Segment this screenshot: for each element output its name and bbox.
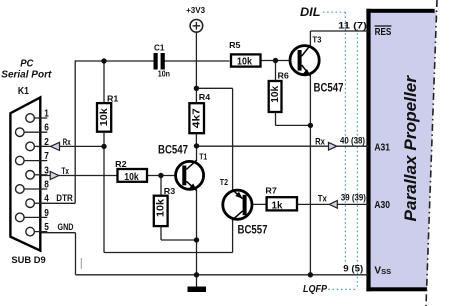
svg-text:BC547: BC547 [314,83,344,95]
svg-text:4: 4 [44,194,49,205]
svg-text:R2: R2 [115,159,127,169]
svg-text:4k7: 4k7 [191,108,203,128]
svg-text:GND: GND [58,222,74,233]
svg-text:10n: 10n [158,70,170,79]
svg-text:VSS: VSS [374,265,391,276]
svg-text:5: 5 [44,222,49,233]
svg-text:+3V3: +3V3 [186,6,205,15]
svg-text:R6: R6 [278,71,290,81]
svg-text:8: 8 [44,180,49,191]
svg-text:Serial Port: Serial Port [1,69,51,81]
svg-text:7: 7 [44,151,49,162]
svg-text:BC547: BC547 [158,145,188,157]
svg-text:10k: 10k [269,86,281,103]
svg-text:3: 3 [44,165,49,176]
svg-text:R4: R4 [199,92,211,102]
svg-text:DIL: DIL [300,7,321,19]
svg-text:SUB D9: SUB D9 [11,255,45,266]
svg-text:A30: A30 [374,200,390,211]
svg-text:Tx: Tx [62,166,70,177]
svg-text:T3: T3 [312,35,321,45]
svg-text:R1: R1 [107,93,119,103]
svg-text:10k: 10k [98,108,110,126]
svg-text:10k: 10k [124,171,139,183]
svg-text:40 (38): 40 (38) [340,135,365,146]
svg-text:Tx: Tx [318,193,328,204]
svg-text:A31: A31 [374,143,390,154]
svg-text:10k: 10k [155,199,167,217]
svg-text:39 (39): 39 (39) [341,193,366,204]
svg-text:11 (7): 11 (7) [338,21,367,32]
svg-text:Rx: Rx [315,136,325,147]
svg-text:K1: K1 [18,85,29,97]
svg-text:BC557: BC557 [238,225,268,237]
svg-text:T2: T2 [220,177,228,187]
svg-text:1k: 1k [272,200,283,212]
svg-text:LQFP: LQFP [303,283,328,295]
svg-text:1: 1 [44,109,49,120]
svg-text:T1: T1 [199,152,207,162]
svg-text:DTR: DTR [56,193,73,204]
svg-text:Parallax Propeller: Parallax Propeller [401,75,420,222]
svg-text:R7: R7 [265,186,277,196]
svg-text:C1: C1 [154,44,165,53]
svg-text:2: 2 [44,137,49,148]
svg-text:Rx: Rx [63,137,71,148]
svg-text:9 (5): 9 (5) [343,263,363,274]
svg-text:9: 9 [44,208,49,219]
svg-text:R3: R3 [164,186,176,196]
svg-text:R5: R5 [229,40,241,50]
svg-text:10k: 10k [237,55,252,67]
svg-text:RES: RES [375,27,392,38]
svg-text:6: 6 [44,123,49,134]
